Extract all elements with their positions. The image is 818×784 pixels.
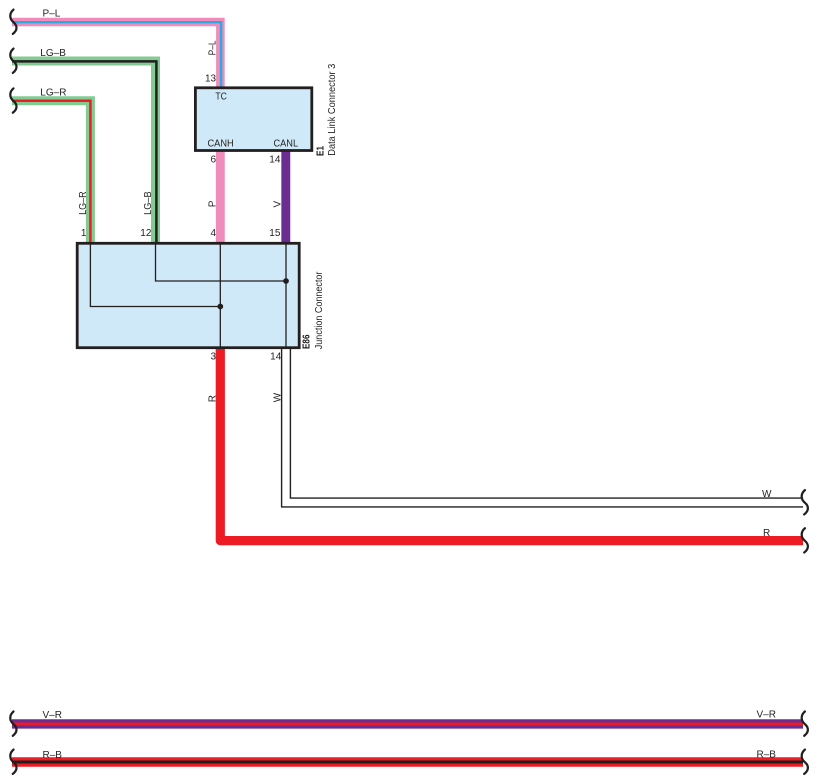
connector E1 Data Link Connector 3 box [195,88,311,151]
svg-text:V–R: V–R [43,710,62,721]
svg-text:15: 15 [269,228,281,239]
pin 3 label [210,351,216,362]
label P-L vertical [208,40,219,55]
break symbol right R-B [802,750,808,774]
svg-text:R–B: R–B [757,750,777,761]
break symbol left R-B [10,750,16,774]
svg-text:E1: E1 [315,146,326,156]
break symbol left V-R [10,712,16,736]
wire P-L (pink/blue) from left break to E1 pin 13 [12,22,221,90]
internal wire E86 pin 12 to pin 15 line [156,243,287,281]
pin 1 label [81,228,87,239]
label LG-B top [40,48,66,59]
svg-text:14: 14 [270,351,282,362]
svg-text:P: P [207,200,218,207]
svg-text:13: 13 [205,73,217,84]
internal wire E86 pin 4 to pin 3 [219,243,221,347]
internal wire E86 pin 1 to pin 3 line [90,243,220,306]
break symbol left LG-R [10,88,16,112]
pin 13 label [205,73,217,84]
label LG-B vertical [143,191,154,215]
junction dot at pin15 line [283,278,289,284]
label V-R left [43,710,62,721]
label LG-R vertical [78,191,89,215]
svg-text:CANH: CANH [208,138,234,149]
svg-text:4: 4 [211,228,217,239]
svg-text:14: 14 [269,155,281,166]
wire V (violet) E1 pin 14 CANL to E86 pin 15 [281,150,290,245]
svg-text:W: W [273,392,284,402]
svg-text:P–L: P–L [208,40,219,55]
wire V-R (violet/red) bottom [12,719,803,728]
svg-text:R–B: R–B [43,750,63,761]
break symbol right W [802,490,808,514]
pin 14 label bottom [270,351,282,362]
svg-text:LG–B: LG–B [143,191,154,215]
wire LG-R (green/red) from left break to E86 pin 1 [12,101,90,245]
break symbol left P-L [10,10,16,34]
label E1 [315,146,326,156]
pin 12 label [140,228,152,239]
wire R-B (red/black) bottom [12,757,803,767]
label R right [763,528,770,539]
label V-R right [757,710,776,721]
wire R (red) E86 pin 3 to right break [220,346,803,541]
svg-text:Data Link Connector 3: Data Link Connector 3 [327,63,338,155]
label P-L top [43,9,61,20]
break symbol right R [802,528,808,552]
label TC [215,92,227,103]
label Junction Connector [314,271,325,349]
label R-B left [43,750,63,761]
junction dot at pin3 line [217,304,223,310]
svg-text:LG–B: LG–B [40,48,66,59]
wire P (pink) E1 pin 6 CANH to E86 pin 4 [216,150,225,245]
svg-text:R: R [208,395,219,402]
svg-text:W: W [762,489,772,500]
label Data Link Connector 3 [327,63,338,155]
label W right [762,489,772,500]
pin 15 label [269,228,281,239]
label V vertical [272,201,283,208]
svg-text:P–L: P–L [43,9,61,20]
label E86 [302,334,313,349]
label P vertical [207,200,218,207]
svg-text:TC: TC [215,92,227,103]
pin 14 label top [269,155,281,166]
label R vertical [208,395,219,402]
svg-text:V: V [272,201,283,208]
internal wire E86 pin 15 to pin 14 [285,243,287,347]
svg-text:LG–R: LG–R [78,191,89,215]
wire LG-B (green/black) from left break to E86 pin 12 [12,61,156,245]
pin 6 label [211,155,217,166]
svg-text:LG–R: LG–R [40,88,66,99]
label W vertical [273,392,284,402]
label LG-R top [40,88,66,99]
break symbol left LG-B [10,49,16,73]
break symbol right V-R [802,712,808,736]
svg-text:1: 1 [81,228,87,239]
label CANH [208,138,234,149]
svg-text:Junction Connector: Junction Connector [314,271,325,349]
connector E86 Junction Connector box [77,243,299,347]
label R-B right [757,750,777,761]
svg-text:R: R [763,528,770,539]
svg-text:V–R: V–R [757,710,776,721]
svg-text:3: 3 [210,351,216,362]
svg-text:E86: E86 [302,334,313,349]
svg-text:6: 6 [211,155,217,166]
pin 4 label [211,228,217,239]
label CANL [274,138,299,149]
wire W (white outlined) E86 pin 14 to right break [286,346,803,503]
svg-text:12: 12 [140,228,152,239]
svg-text:CANL: CANL [274,138,299,149]
